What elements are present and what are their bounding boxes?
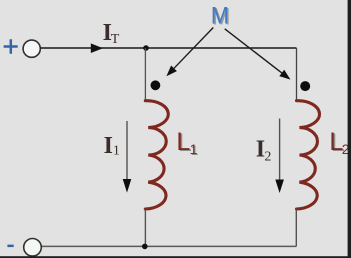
label + (positive polarity) — [4, 39, 18, 53]
current arrow I2 — [279, 119, 281, 181]
svg-text:M: M — [211, 2, 229, 29]
svg-text:I: I — [104, 133, 113, 159]
junction node top — [143, 45, 149, 51]
mutual arrow right — [225, 29, 282, 73]
inductor L2 — [297, 101, 320, 209]
wire L1 top lead — [144, 48, 146, 101]
current arrow I1 — [126, 121, 128, 180]
svg-text:1: 1 — [113, 144, 120, 159]
junction node bottom — [142, 244, 148, 250]
polarity dot L2 — [300, 81, 310, 91]
svg-text:L: L — [176, 128, 190, 156]
wire L1 bottom lead — [144, 209, 146, 247]
svg-text:1: 1 — [190, 141, 198, 157]
arrowhead IT — [91, 43, 103, 53]
wire L2 bottom lead — [295, 209, 297, 247]
wire right vertical (corner to L2) — [296, 48, 298, 101]
svg-text:T: T — [111, 32, 120, 47]
terminal T2 (negative) — [24, 239, 42, 257]
inductor L1 — [145, 101, 168, 209]
mutual arrow left — [174, 28, 213, 69]
polarity dot L1 — [151, 80, 161, 90]
border right — [348, 0, 351, 258]
svg-text:2: 2 — [264, 150, 271, 165]
label - (negative polarity) — [7, 245, 13, 248]
wire bottom horizontal — [42, 245, 296, 247]
terminal T1 (positive input) — [23, 40, 40, 57]
wire top horizontal — [40, 47, 296, 49]
border bottom — [0, 256, 351, 258]
